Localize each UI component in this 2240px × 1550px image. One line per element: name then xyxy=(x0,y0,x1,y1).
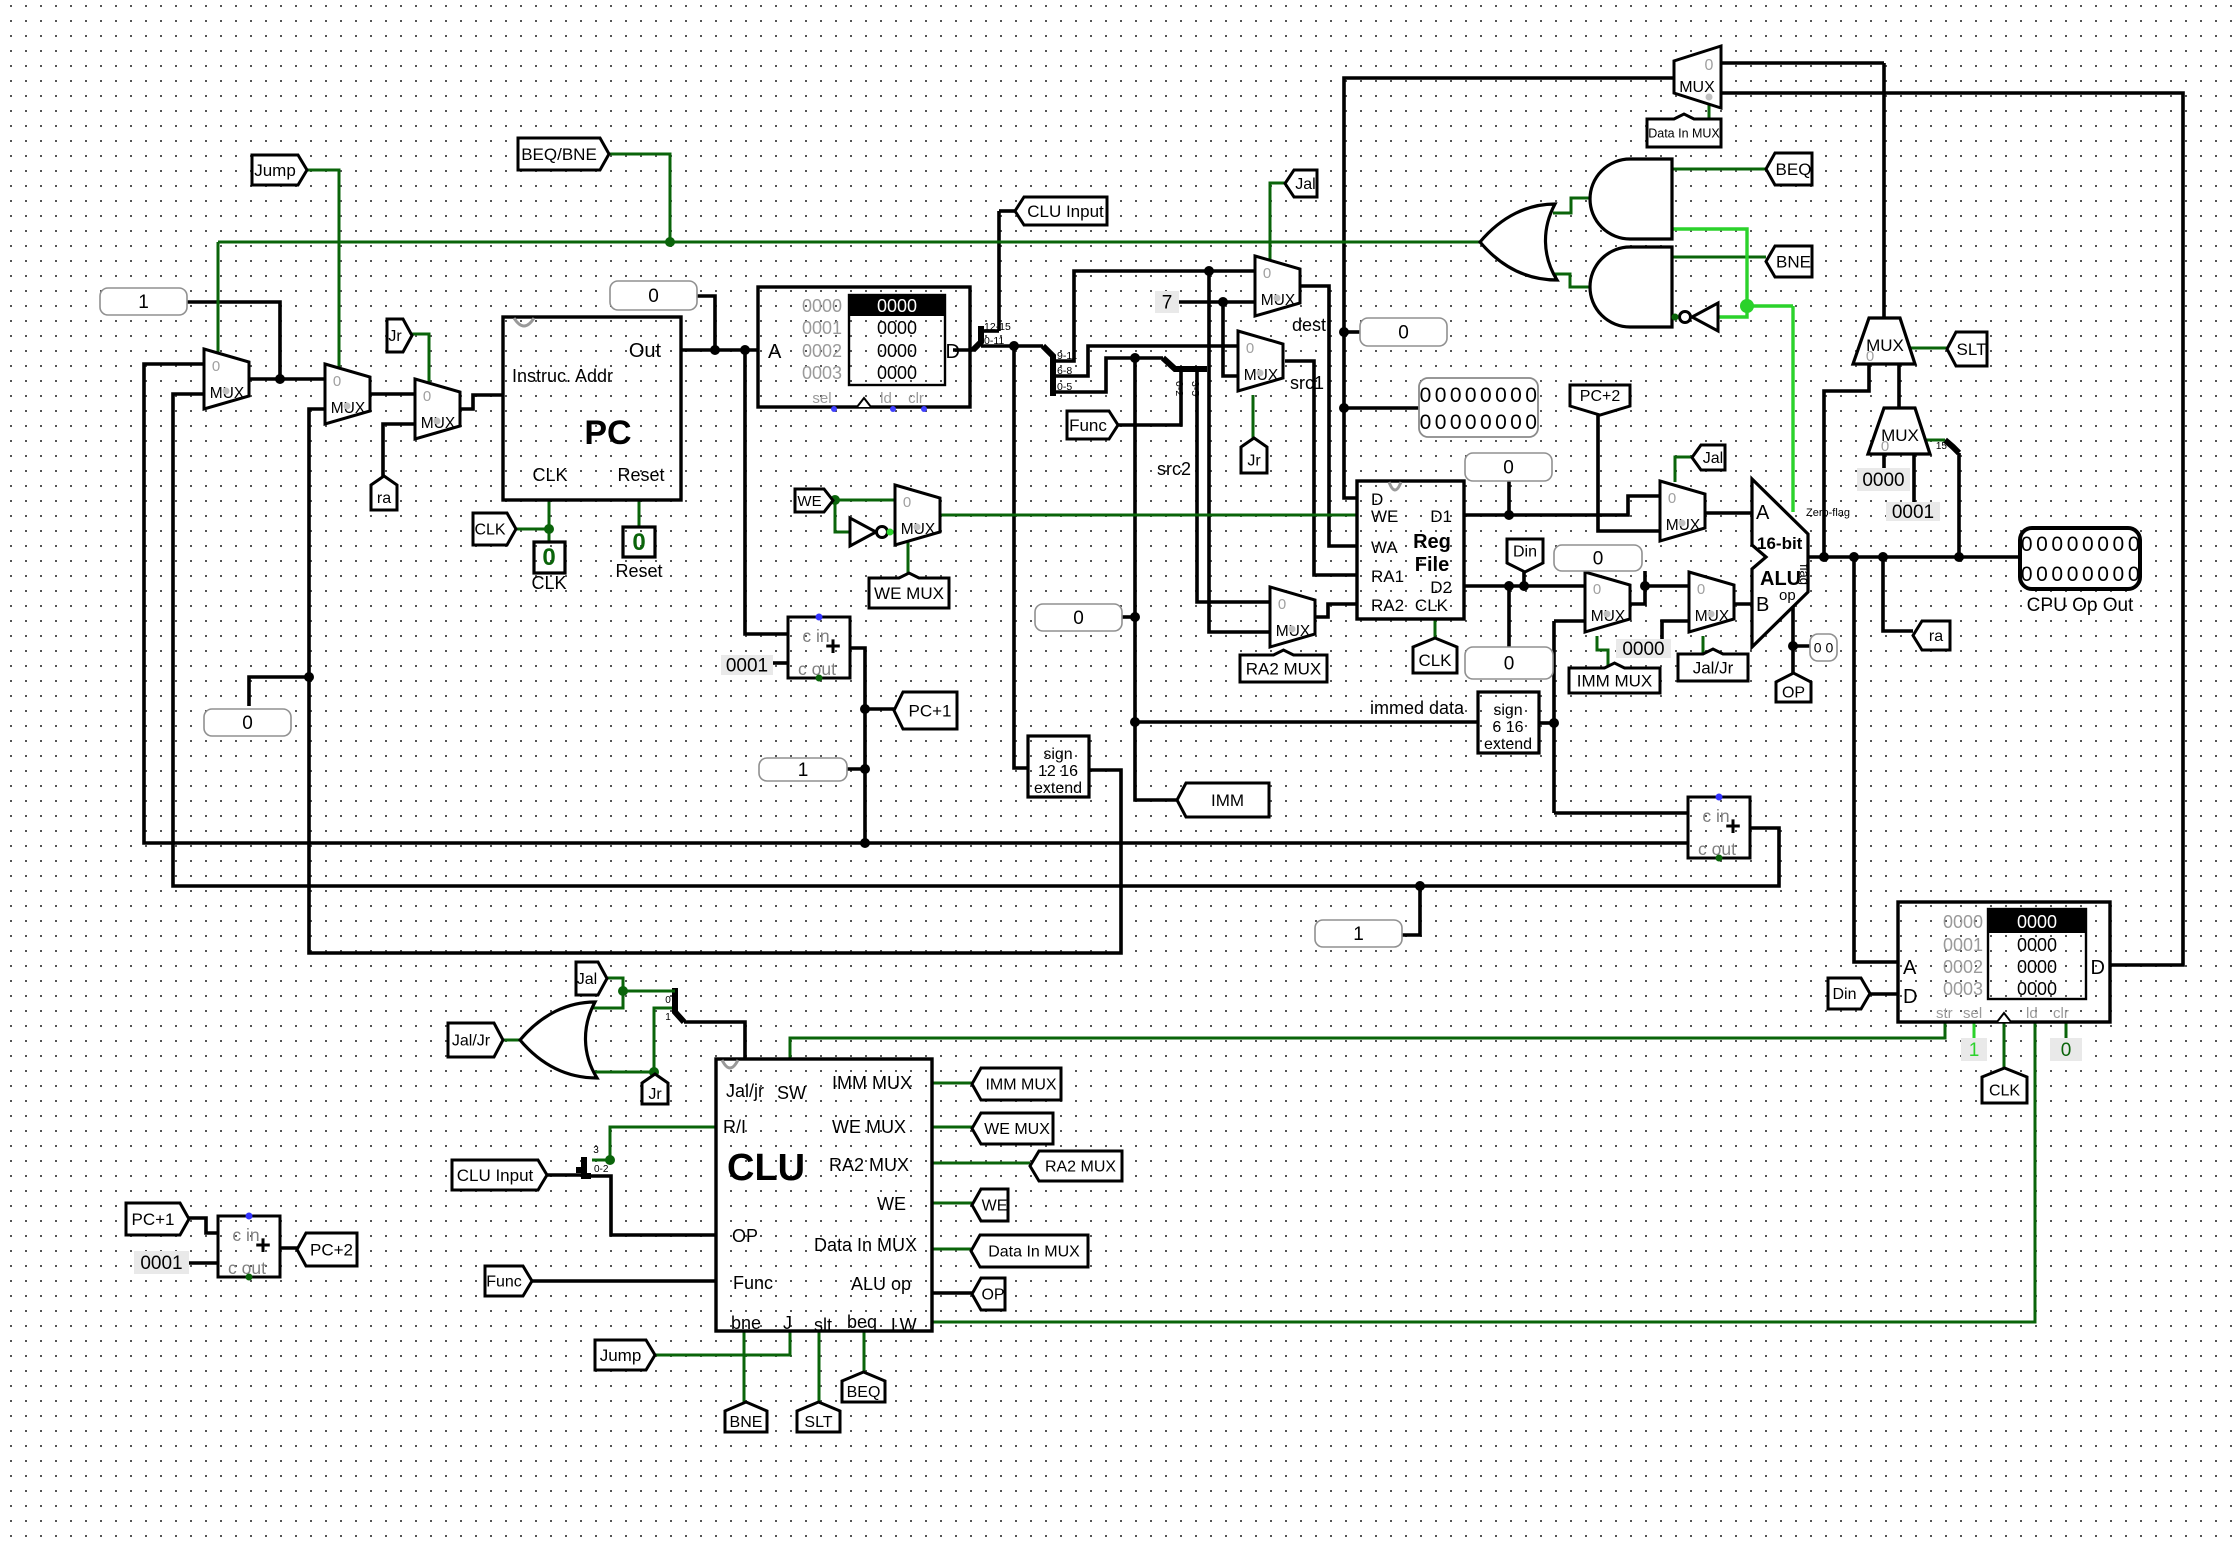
svg-text:Jump: Jump xyxy=(254,161,296,180)
svg-text:IMM MUX: IMM MUX xyxy=(985,1077,1056,1094)
svg-text:WE: WE xyxy=(877,1194,906,1214)
svg-text:1: 1 xyxy=(798,760,809,781)
svg-text:slt: slt xyxy=(814,1315,832,1335)
svg-text:CLU Input: CLU Input xyxy=(457,1166,534,1185)
svg-text:0: 0 xyxy=(1246,340,1254,357)
svg-text:16-bit: 16-bit xyxy=(1757,534,1803,553)
svg-text:WE MUX: WE MUX xyxy=(874,584,944,603)
svg-text:0000: 0000 xyxy=(877,296,917,316)
svg-text:00000000: 00000000 xyxy=(2021,563,2143,586)
svg-text:ld: ld xyxy=(2026,1005,2038,1022)
svg-text:WE: WE xyxy=(797,493,821,510)
svg-text:CLK: CLK xyxy=(531,573,566,593)
svg-text:12 16: 12 16 xyxy=(1038,763,1078,780)
svg-text:PC+2: PC+2 xyxy=(310,1240,353,1259)
svg-text:9-11: 9-11 xyxy=(1057,350,1077,362)
svg-text:CLU Input: CLU Input xyxy=(1027,202,1104,221)
svg-text:0: 0 xyxy=(1705,57,1714,74)
svg-text:0-5: 0-5 xyxy=(1057,381,1072,393)
svg-text:OP: OP xyxy=(732,1226,758,1246)
svg-text:0000: 0000 xyxy=(2017,935,2057,955)
svg-text:6-8: 6-8 xyxy=(1057,365,1072,377)
svg-text:0: 0 xyxy=(1668,490,1676,507)
svg-text:0000: 0000 xyxy=(1943,912,1983,932)
svg-text:6 16: 6 16 xyxy=(1492,719,1523,736)
svg-text:Jr: Jr xyxy=(388,328,402,345)
svg-text:src2: src2 xyxy=(1157,459,1191,479)
svg-text:0002: 0002 xyxy=(802,341,842,361)
svg-text:sel: sel xyxy=(1963,1005,1982,1022)
svg-text:Out: Out xyxy=(629,340,662,362)
svg-text:CLK: CLK xyxy=(474,522,505,539)
svg-text:0: 0 xyxy=(1866,348,1874,365)
svg-text:RA2 MUX: RA2 MUX xyxy=(1045,1159,1116,1176)
svg-text:str: str xyxy=(1936,1005,1953,1022)
svg-text:0001: 0001 xyxy=(1892,502,1934,523)
svg-text:0: 0 xyxy=(542,544,555,571)
svg-text:ra: ra xyxy=(1929,628,1943,645)
svg-text:1: 1 xyxy=(665,1012,671,1023)
svg-text:Zero-flag: Zero-flag xyxy=(1806,507,1850,519)
svg-text:Jr: Jr xyxy=(648,1086,662,1103)
svg-text:D2: D2 xyxy=(1430,578,1452,597)
svg-text:ra: ra xyxy=(377,490,391,507)
svg-text:extend: extend xyxy=(1034,780,1082,797)
svg-text:ld: ld xyxy=(880,390,892,407)
svg-text:0000: 0000 xyxy=(1622,639,1664,660)
svg-text:0000: 0000 xyxy=(877,363,917,383)
svg-text:0001: 0001 xyxy=(140,1253,182,1274)
svg-text:0000: 0000 xyxy=(877,318,917,338)
svg-text:PC+2: PC+2 xyxy=(1580,388,1621,405)
svg-text:+: + xyxy=(1725,811,1741,841)
svg-text:0: 0 xyxy=(333,373,341,390)
svg-text:Jal/jr: Jal/jr xyxy=(726,1081,764,1101)
svg-text:Jr: Jr xyxy=(1247,453,1261,470)
svg-text:R/I: R/I xyxy=(723,1117,746,1137)
svg-text:PC+1: PC+1 xyxy=(909,701,952,720)
svg-text:3-5: 3-5 xyxy=(1189,381,1201,396)
svg-text:op: op xyxy=(1779,587,1796,604)
svg-text:CLK: CLK xyxy=(532,465,567,485)
svg-text:sel: sel xyxy=(812,390,831,407)
svg-text:0-2: 0-2 xyxy=(1173,381,1185,396)
svg-text:0: 0 xyxy=(648,286,659,307)
svg-text:D: D xyxy=(1903,986,1917,1008)
svg-text:PC: PC xyxy=(584,414,631,452)
svg-text:beq: beq xyxy=(847,1312,877,1332)
svg-text:dest: dest xyxy=(1292,315,1326,335)
svg-text:BNE: BNE xyxy=(730,1414,763,1431)
svg-text:7: 7 xyxy=(1162,293,1173,314)
svg-text:ALU op: ALU op xyxy=(851,1274,911,1294)
svg-text:0: 0 xyxy=(632,529,645,556)
svg-text:J: J xyxy=(783,1313,792,1333)
svg-text:0: 0 xyxy=(212,358,220,375)
svg-text:00000000: 00000000 xyxy=(1420,411,1541,434)
svg-text:RA1: RA1 xyxy=(1371,567,1404,586)
svg-text:0003: 0003 xyxy=(1943,979,1983,999)
svg-text:Reset: Reset xyxy=(615,561,662,581)
svg-text:0000: 0000 xyxy=(802,296,842,316)
svg-text:CLK: CLK xyxy=(1989,1083,2020,1100)
svg-text:B: B xyxy=(1756,594,1769,616)
svg-text:IMM: IMM xyxy=(1211,791,1244,810)
svg-text:src1: src1 xyxy=(1290,373,1324,393)
svg-text:WE: WE xyxy=(1371,507,1398,526)
svg-text:immed data: immed data xyxy=(1370,698,1465,718)
svg-text:Din: Din xyxy=(1832,986,1856,1003)
svg-text:RA2: RA2 xyxy=(1371,596,1404,615)
svg-text:CPU Op Out: CPU Op Out xyxy=(2027,595,2134,616)
svg-text:SLT: SLT xyxy=(804,1414,832,1431)
svg-text:0: 0 xyxy=(1593,581,1601,598)
svg-text:Func: Func xyxy=(733,1273,773,1293)
svg-text:1: 1 xyxy=(1969,1040,1980,1061)
svg-text:MUX: MUX xyxy=(1679,79,1715,96)
svg-text:3: 3 xyxy=(593,1145,599,1156)
svg-text:BEQ/BNE: BEQ/BNE xyxy=(521,145,597,164)
svg-text:0: 0 xyxy=(1263,265,1271,282)
svg-text:Data In MUX: Data In MUX xyxy=(1648,126,1720,140)
svg-text:0000: 0000 xyxy=(2017,912,2057,932)
svg-text:0: 0 xyxy=(1278,596,1286,613)
svg-text:OP: OP xyxy=(1782,685,1805,702)
svg-text:0000: 0000 xyxy=(1862,470,1904,491)
svg-text:Jal: Jal xyxy=(577,971,597,988)
svg-text:0002: 0002 xyxy=(1943,957,1983,977)
svg-text:BNE: BNE xyxy=(1776,252,1811,271)
svg-text:A: A xyxy=(1756,502,1770,524)
svg-text:Jump: Jump xyxy=(600,1346,642,1365)
svg-text:+: + xyxy=(255,1230,271,1260)
svg-text:0: 0 xyxy=(665,995,671,1006)
svg-text:BEQ: BEQ xyxy=(847,1384,881,1401)
svg-text:15: 15 xyxy=(1936,441,1948,452)
svg-text:0001: 0001 xyxy=(802,318,842,338)
svg-text:CLU: CLU xyxy=(727,1147,805,1189)
svg-text:sign: sign xyxy=(1043,746,1072,763)
svg-text:0: 0 xyxy=(423,388,431,405)
svg-text:extend: extend xyxy=(1484,736,1532,753)
svg-text:12-15: 12-15 xyxy=(984,321,1011,333)
svg-text:WA: WA xyxy=(1371,538,1398,557)
svg-text:flag: flag xyxy=(1797,564,1812,585)
svg-text:0-11: 0-11 xyxy=(984,335,1004,347)
svg-text:Jal: Jal xyxy=(1703,450,1723,467)
svg-text:bne: bne xyxy=(731,1313,761,1333)
svg-text:0000: 0000 xyxy=(2017,957,2057,977)
svg-text:0: 0 xyxy=(1504,654,1515,675)
svg-text:WE: WE xyxy=(982,1198,1008,1215)
svg-text:0-2: 0-2 xyxy=(594,1164,609,1175)
svg-text:RA2 MUX: RA2 MUX xyxy=(1246,659,1322,678)
svg-text:Reg: Reg xyxy=(1413,531,1451,553)
svg-text:Instruc. Addr: Instruc. Addr xyxy=(512,366,613,386)
svg-text:SW: SW xyxy=(777,1083,806,1103)
svg-text:PC+1: PC+1 xyxy=(132,1210,175,1229)
svg-text:File: File xyxy=(1415,554,1449,576)
svg-text:0: 0 xyxy=(903,494,911,511)
svg-text:0001: 0001 xyxy=(1943,935,1983,955)
svg-text:0: 0 xyxy=(1593,549,1604,570)
svg-text:+: + xyxy=(825,631,841,661)
svg-text:0 0: 0 0 xyxy=(1814,639,1834,655)
svg-text:WE MUX: WE MUX xyxy=(984,1121,1050,1138)
svg-text:1: 1 xyxy=(138,292,149,313)
svg-text:0: 0 xyxy=(2061,1040,2072,1061)
svg-text:clr: clr xyxy=(2053,1005,2069,1022)
svg-text:D1: D1 xyxy=(1430,507,1452,526)
svg-text:D: D xyxy=(2091,957,2105,979)
svg-text:clr: clr xyxy=(908,390,924,407)
svg-text:IMM MUX: IMM MUX xyxy=(832,1073,912,1093)
svg-text:OP: OP xyxy=(981,1287,1004,1304)
svg-text:Data In MUX: Data In MUX xyxy=(814,1235,917,1255)
svg-text:WE MUX: WE MUX xyxy=(832,1117,906,1137)
svg-text:0000: 0000 xyxy=(877,341,917,361)
svg-text:Func: Func xyxy=(1069,416,1107,435)
svg-text:0: 0 xyxy=(1503,458,1514,479)
svg-text:SLT: SLT xyxy=(1957,340,1987,359)
svg-text:Func: Func xyxy=(486,1274,522,1291)
svg-text:00000000: 00000000 xyxy=(1420,384,1541,407)
svg-text:LW: LW xyxy=(891,1315,917,1335)
svg-text:Jal/Jr: Jal/Jr xyxy=(452,1033,491,1050)
svg-text:RA2 MUX: RA2 MUX xyxy=(829,1155,909,1175)
svg-text:0: 0 xyxy=(242,713,253,734)
svg-text:Din: Din xyxy=(1513,544,1537,561)
svg-text:A: A xyxy=(768,341,782,363)
svg-text:0003: 0003 xyxy=(802,363,842,383)
svg-text:Reset: Reset xyxy=(617,465,664,485)
svg-text:0001: 0001 xyxy=(726,656,768,677)
svg-text:CLK: CLK xyxy=(1418,651,1452,670)
svg-text:sign: sign xyxy=(1493,702,1522,719)
svg-text:D: D xyxy=(946,341,960,363)
svg-text:0: 0 xyxy=(1398,323,1409,344)
svg-text:0: 0 xyxy=(1881,438,1889,455)
svg-text:IMM MUX: IMM MUX xyxy=(1577,671,1653,690)
svg-text:00000000: 00000000 xyxy=(2021,533,2143,556)
svg-text:Data In MUX: Data In MUX xyxy=(988,1244,1080,1261)
svg-text:CLK: CLK xyxy=(1415,596,1449,615)
svg-text:0: 0 xyxy=(1073,608,1084,629)
svg-text:Jal/Jr: Jal/Jr xyxy=(1693,658,1734,677)
svg-text:0: 0 xyxy=(1697,581,1705,598)
svg-text:1: 1 xyxy=(1353,924,1364,945)
svg-text:BEQ: BEQ xyxy=(1776,160,1812,179)
svg-text:A: A xyxy=(1903,957,1917,979)
svg-text:Jal: Jal xyxy=(1295,176,1315,193)
svg-text:0000: 0000 xyxy=(2017,979,2057,999)
